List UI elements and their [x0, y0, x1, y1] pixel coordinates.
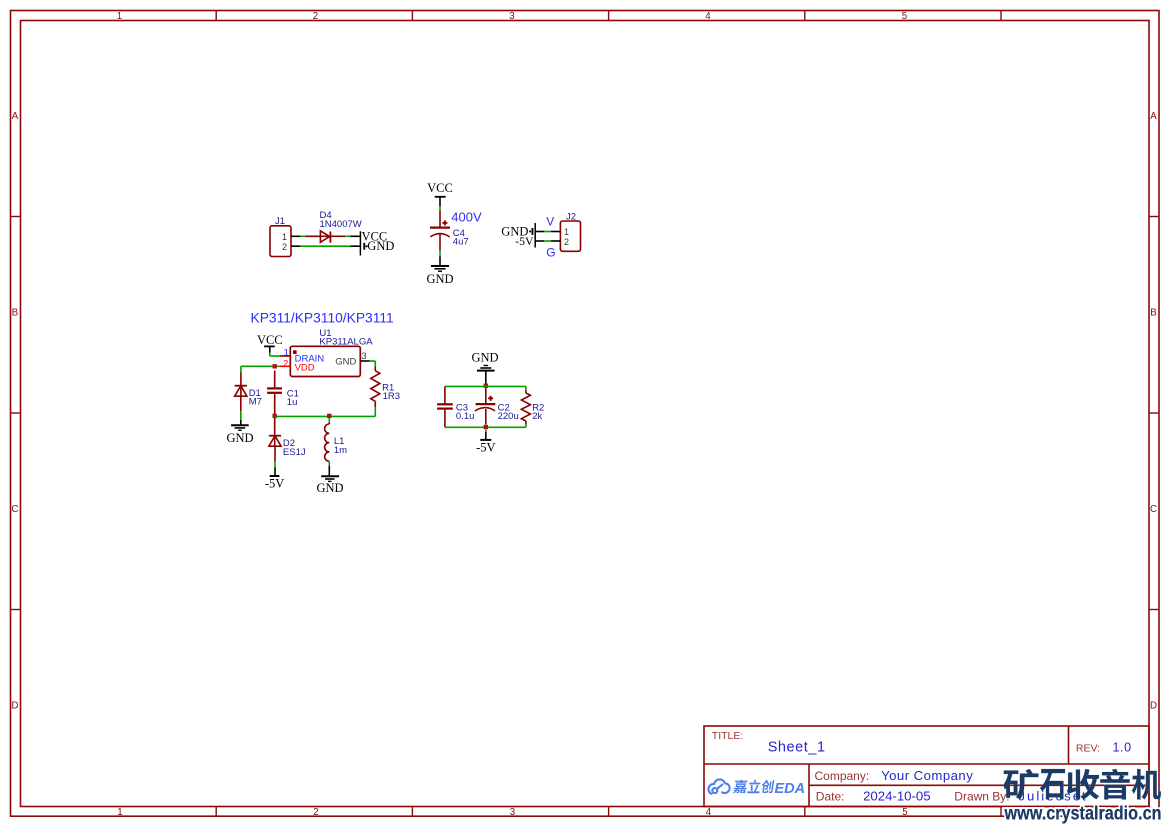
svg-text:2: 2	[283, 359, 288, 370]
svg-text:400V: 400V	[451, 209, 482, 224]
svg-text:Your Company: Your Company	[881, 768, 973, 783]
svg-text:-5V: -5V	[515, 234, 534, 248]
svg-text:1: 1	[564, 227, 569, 237]
svg-text:2: 2	[313, 807, 318, 818]
svg-text:4u7: 4u7	[453, 236, 469, 247]
svg-text:B: B	[12, 308, 18, 319]
svg-text:C: C	[12, 504, 19, 515]
svg-text:Date:: Date:	[816, 790, 845, 804]
svg-text:D: D	[12, 701, 19, 712]
svg-text:VDD: VDD	[295, 363, 315, 374]
svg-text:Sheet_1: Sheet_1	[768, 740, 826, 756]
svg-text:GND: GND	[426, 272, 453, 286]
svg-text:A: A	[12, 111, 19, 122]
svg-text:G: G	[546, 246, 555, 260]
svg-text:5: 5	[902, 807, 907, 818]
svg-text:3: 3	[509, 11, 514, 22]
svg-text:4: 4	[706, 807, 712, 818]
svg-text:220u: 220u	[498, 411, 519, 422]
svg-text:GND: GND	[335, 356, 356, 367]
svg-text:GND: GND	[471, 350, 498, 364]
svg-text:-5V: -5V	[476, 440, 495, 454]
svg-text:Company:: Company:	[815, 769, 870, 783]
svg-text:C: C	[1150, 504, 1157, 515]
svg-text:1u: 1u	[287, 397, 298, 408]
svg-text:EDA: EDA	[775, 781, 806, 797]
svg-text:1.0: 1.0	[1113, 740, 1132, 754]
svg-text:-5V: -5V	[265, 477, 284, 491]
svg-text:Drawn By:: Drawn By:	[954, 790, 1009, 804]
svg-text:1N4007W: 1N4007W	[320, 219, 362, 230]
svg-text:4: 4	[705, 11, 711, 22]
svg-text:VCC: VCC	[257, 333, 283, 347]
svg-text:2k: 2k	[532, 411, 542, 422]
svg-text:GND: GND	[316, 481, 343, 495]
svg-text:B: B	[1150, 308, 1156, 319]
svg-text:www.crystalradio.cn: www.crystalradio.cn	[1004, 804, 1162, 825]
svg-text:M7: M7	[249, 397, 262, 408]
svg-text:3: 3	[510, 807, 515, 818]
svg-text:0.1u: 0.1u	[456, 411, 475, 422]
svg-text:V: V	[546, 214, 554, 228]
svg-text:TITLE:: TITLE:	[712, 730, 744, 742]
svg-text:KP311/KP3110/KP3111: KP311/KP3110/KP3111	[251, 311, 394, 326]
svg-text:J2: J2	[566, 211, 576, 222]
svg-text:1: 1	[282, 232, 287, 242]
svg-text:D: D	[1150, 701, 1157, 712]
svg-text:2024-10-05: 2024-10-05	[863, 789, 930, 804]
svg-text:1m: 1m	[334, 445, 347, 456]
svg-text:VCC: VCC	[427, 181, 453, 195]
svg-text:A: A	[1150, 111, 1157, 122]
svg-text:2: 2	[282, 242, 287, 252]
svg-text:ES1J: ES1J	[283, 447, 306, 458]
svg-text:GND: GND	[367, 239, 394, 253]
svg-text:1: 1	[117, 11, 122, 22]
svg-text:REV:: REV:	[1076, 742, 1100, 754]
svg-text:2: 2	[564, 237, 569, 247]
svg-text:J1: J1	[275, 216, 285, 227]
svg-text:1: 1	[117, 807, 122, 818]
svg-text:GND: GND	[226, 431, 253, 445]
svg-text:1R3: 1R3	[383, 391, 400, 402]
svg-text:2: 2	[313, 11, 318, 22]
svg-text:5: 5	[902, 11, 907, 22]
